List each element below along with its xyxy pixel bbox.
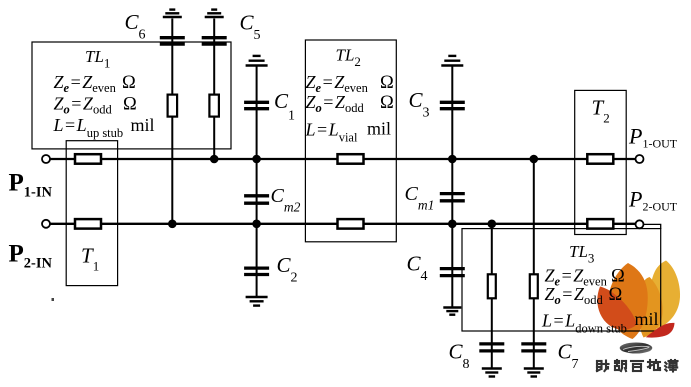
transmission-line section T1 bottom section (75, 219, 101, 229)
enclosure box TL2 (305, 40, 396, 242)
capacitor C2 (244, 268, 269, 274)
svg-text:Ω: Ω (122, 73, 136, 93)
transmission-line section TL2 bottom section (338, 219, 364, 229)
transmission-line section T1 top section (75, 154, 101, 164)
ground (below C2) (246, 297, 268, 306)
logo flame petal orange (center) (608, 263, 648, 339)
svg-text:L=Lvial: L=Lvial (305, 120, 358, 145)
capacitor Cm1 (440, 194, 465, 201)
transmission-line stub section TL3 stub b (530, 274, 538, 298)
wire branch stub B5 (C8) vertical (491, 224, 493, 369)
capacitor C1 (244, 102, 269, 108)
node A (C5 stub / top rail) (210, 155, 219, 164)
wire branch stub B6 (C7) vertical (533, 159, 535, 369)
node E (C6 stub / bottom rail) (168, 220, 177, 229)
wire top rail P1-IN to P1-OUT (50, 158, 636, 160)
capacitor C6 (160, 38, 185, 44)
svg-text:C4: C4 (407, 252, 428, 285)
svg-text:Ω: Ω (123, 95, 137, 115)
transmission-line section T2 top section (587, 154, 613, 164)
svg-text:Ω: Ω (380, 73, 394, 93)
svg-text:Cm2: Cm2 (271, 185, 301, 215)
ground (below C8) (482, 369, 502, 377)
logo flame petal amber (center-right) (638, 277, 663, 338)
svg-text:mil: mil (131, 115, 155, 135)
wire branch C1/Cm2/C2 vertical (256, 66, 258, 297)
enclosure box TL1 (32, 42, 231, 149)
logo flame swoosh (red) (646, 323, 675, 338)
ground (above C1) (246, 56, 268, 66)
svg-text:Ze=Zeven: Ze=Zeven (54, 72, 117, 95)
enclosure box TL3 (462, 229, 661, 331)
ground (below C7) (524, 369, 544, 377)
svg-text:Ω: Ω (380, 93, 394, 113)
wire branch C3/Cm1/C4 vertical (451, 66, 453, 308)
wire branch stub B2 (C5) vertical (213, 19, 215, 160)
svg-text:L=Lup stub: L=Lup stub (53, 115, 124, 140)
port terminal P1-OUT (636, 155, 644, 163)
svg-text:TL1: TL1 (85, 47, 110, 70)
enclosure box T1 (66, 141, 117, 286)
svg-text:TL2: TL2 (336, 45, 361, 69)
svg-text:Cm1: Cm1 (405, 183, 435, 213)
port terminal P1-IN (42, 155, 50, 163)
ground (above C3) (441, 56, 463, 66)
capacitor C3 (440, 102, 465, 108)
svg-text:Zo=Zodd: Zo=Zodd (54, 94, 113, 117)
svg-text:Ω: Ω (609, 285, 623, 305)
svg-text:C8: C8 (449, 340, 470, 373)
svg-text:T1: T1 (81, 244, 99, 274)
svg-text:Zo=Zodd: Zo=Zodd (306, 92, 365, 115)
transmission-line stub section TL3 stub a (488, 274, 496, 298)
svg-text:C6: C6 (125, 10, 146, 43)
svg-text:mil: mil (367, 118, 391, 138)
logo flame petal yellow (right) (650, 261, 680, 330)
svg-text:C3: C3 (409, 88, 430, 121)
port terminal P2-OUT (636, 220, 644, 228)
capacitor C5 (202, 38, 227, 44)
svg-text:P2-OUT: P2-OUT (628, 187, 678, 214)
svg-text:mil: mil (635, 309, 659, 329)
transmission-line section T2 bottom section (587, 219, 613, 229)
ground (above C6) (163, 10, 182, 17)
wire bottom rail P2-IN to P2-OUT (50, 223, 636, 225)
node B (C1 / top rail) (252, 155, 261, 164)
svg-text:C1: C1 (274, 89, 295, 124)
logo flame petal red (left) (597, 287, 637, 330)
transmission-line stub section TL1 stub a (168, 95, 178, 117)
node F (Cm2 / bottom rail) (252, 220, 261, 229)
logo Chinese brand text 射频百花潭 (stroke approximation) (597, 361, 609, 372)
svg-text:Ω: Ω (611, 267, 625, 287)
svg-text:TL3: TL3 (569, 242, 594, 266)
enclosure box T2 (575, 90, 627, 234)
node H (C8 stub / bottom rail) (488, 220, 497, 229)
capacitor Cm2 (244, 196, 269, 203)
svg-text:P2-IN: P2-IN (9, 241, 53, 272)
wire branch stub B1 (C6) vertical (171, 19, 173, 224)
port terminal P2-IN (42, 220, 50, 228)
node C (C3 / top rail) (448, 155, 457, 164)
ground (above C5) (205, 10, 224, 17)
wire P2-OUT elbow to TL3 box (644, 224, 661, 229)
svg-text:C5: C5 (240, 11, 261, 44)
ground (below C4) (443, 308, 461, 315)
svg-text:C2: C2 (277, 253, 298, 286)
node G (C4 / bottom rail) (448, 220, 457, 229)
svg-text:P1-OUT: P1-OUT (628, 124, 678, 151)
logo disc swirl highlights (623, 346, 650, 351)
node D (C7 stub / top rail) (530, 155, 539, 164)
capacitor C4 (440, 269, 465, 276)
stray mark (52, 298, 55, 301)
capacitor C8 (479, 344, 504, 351)
svg-text:C7: C7 (558, 340, 579, 373)
svg-text:P1-IN: P1-IN (9, 169, 53, 200)
capacitor C7 (521, 344, 546, 351)
transmission-line stub section TL1 stub b (209, 95, 219, 117)
svg-text:T2: T2 (592, 96, 610, 126)
transmission-line section TL2 top section (338, 154, 364, 164)
